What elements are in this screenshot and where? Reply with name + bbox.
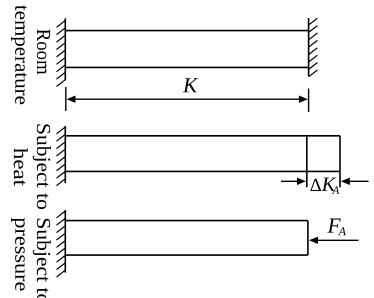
label: Subject to pressure (rotated) [11, 218, 51, 298]
arrowhead right of K dim [299, 96, 308, 103]
wall left bottom section [64, 210, 66, 273]
dimension K: line with arrows [72, 98, 303, 100]
dimension K: extension ticks [66, 87, 309, 112]
label F_A [327, 219, 346, 236]
force arrow F_A [317, 239, 359, 241]
wall right top section [308, 18, 310, 76]
hatching right wall top [309, 18, 318, 77]
hatching left wall middle [57, 127, 66, 186]
arrow pointing right at Delta K_A [281, 180, 299, 182]
arrow pointing left at Delta K_A [349, 180, 369, 182]
hatching left wall top [57, 21, 66, 87]
hatching left wall bottom [57, 211, 66, 277]
label Delta K_A [311, 178, 340, 194]
wall left middle section [64, 126, 66, 183]
arrowhead left of K dim [67, 96, 76, 103]
label: Room temperature (rotated) [11, 5, 50, 104]
wall left top section [64, 18, 66, 80]
label: Subject to heat (rotated) [14, 124, 51, 209]
bar top section [65, 31, 308, 68]
label K [183, 78, 199, 92]
bar middle section [65, 136, 340, 188]
inner line at original length K [306, 136, 308, 188]
bar bottom section [65, 221, 308, 256]
